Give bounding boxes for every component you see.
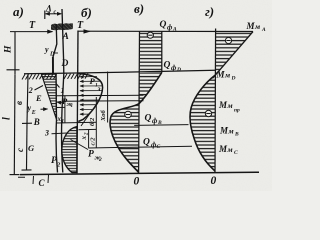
pressure bulge P1 (78, 74, 102, 122)
svg-text:D: D (49, 52, 55, 58)
Q curve (110, 73, 162, 173)
svg-text:С: С (39, 178, 46, 188)
svg-text:м: м (228, 127, 234, 136)
dimension c bottom tick (22, 169, 32, 171)
bottom line level C (20, 172, 259, 174)
dimension l line (13, 74, 16, 174)
svg-text:м: м (227, 145, 233, 154)
dimension v/c junction tick (22, 122, 32, 124)
svg-text:Δ: Δ (45, 4, 52, 14)
svg-text:0: 0 (134, 176, 140, 188)
svg-text:D: D (61, 59, 69, 69)
svg-text:1: 1 (62, 120, 65, 125)
svg-text:D: D (176, 67, 181, 73)
M axis panel g (214, 29, 217, 174)
dimension x1 line (64, 96, 66, 123)
svg-text:2: 2 (28, 86, 33, 95)
svg-text:Е: Е (31, 110, 36, 116)
ground hatch marks right (64, 73, 88, 79)
svg-text:Р: Р (88, 150, 94, 160)
level line resultant1 lower (56, 106, 65, 108)
level line resultant1 (63, 100, 144, 103)
M upper triangle hatched (216, 32, 253, 75)
level line x2 top (79, 128, 97, 130)
hatched cap strip (51, 23, 73, 30)
svg-text:В: В (33, 117, 40, 127)
frame line panel b (77, 31, 78, 174)
minus sign in M bulge (205, 110, 211, 116)
svg-text:з: з (97, 84, 101, 93)
top line level A (78, 30, 253, 32)
svg-text:Q: Q (143, 138, 150, 148)
dimension l end dash (18, 176, 25, 178)
svg-text:М: М (216, 70, 226, 80)
svg-text:у: у (27, 104, 32, 113)
svg-text:М: М (246, 21, 256, 31)
svg-text:с: с (15, 148, 25, 152)
svg-text:М: М (218, 100, 228, 110)
M curve (190, 75, 215, 171)
Q rectangle hatched (140, 32, 162, 73)
level line G (88, 146, 192, 148)
dimension v line (27, 74, 28, 123)
leader diagonal (81, 105, 96, 127)
svg-text:А: А (261, 27, 266, 33)
svg-text:С: С (234, 150, 238, 156)
svg-text:0: 0 (211, 175, 217, 187)
svg-text:в): в) (134, 1, 144, 16)
svg-text:2: 2 (85, 132, 90, 136)
ground line (24, 70, 215, 74)
svg-text:х: х (80, 136, 88, 141)
dimension c/2 + b/2 line (95, 97, 97, 148)
Q curve upper part hatched (139, 73, 162, 104)
svg-text:1: 1 (61, 86, 65, 95)
svg-text:М: М (219, 126, 229, 136)
svg-text:б): б) (81, 5, 92, 20)
svg-text:Т: Т (29, 20, 36, 31)
P1 arrows (80, 76, 97, 78)
level line b2 top (56, 94, 144, 97)
svg-text:с/2: с/2 (90, 137, 97, 146)
T arrowhead on top line (84, 29, 92, 33)
svg-text:1: 1 (71, 104, 74, 109)
svg-text:пр: пр (234, 108, 240, 114)
Q curve lower bulge hatched (110, 104, 139, 173)
svg-text:в: в (14, 101, 24, 105)
M curve lower bulge hatched (190, 75, 215, 171)
svg-text:А: А (62, 32, 69, 42)
svg-text:А: А (172, 27, 177, 33)
dimension l bottom tick (10, 174, 20, 176)
svg-text:с: с (54, 10, 57, 16)
svg-text:м: м (224, 71, 230, 80)
svg-text:м: м (254, 22, 260, 31)
minus sign in M triangle (225, 37, 231, 43)
yD leader dash (55, 52, 59, 54)
minus sign in Q bulge (125, 111, 132, 118)
svg-text:а): а) (13, 4, 24, 19)
svg-text:б/2: б/2 (89, 117, 96, 126)
svg-text:М: М (218, 144, 228, 154)
dimension Xob line (107, 72, 109, 123)
svg-text:Н: Н (4, 45, 14, 54)
svg-text:Q: Q (160, 20, 167, 30)
Q rectangle right edge (161, 31, 163, 72)
svg-text:С: С (157, 144, 161, 150)
resultant P_zh1 label (57, 101, 62, 104)
pile left edge (53, 24, 58, 173)
level line B right (134, 124, 188, 127)
svg-text:G: G (28, 143, 35, 153)
svg-text:l: l (2, 117, 13, 120)
dimension delta-c line (46, 13, 62, 15)
svg-text:3: 3 (44, 129, 49, 138)
pressure lens epure P2 (62, 127, 77, 173)
tick left of node C (32, 176, 35, 184)
svg-text:у: у (44, 45, 49, 54)
minus sign in Q rectangle (147, 32, 153, 38)
svg-text:Т: Т (77, 20, 84, 31)
svg-text:Хоб: Хоб (100, 110, 107, 122)
dimension c line (26, 123, 29, 170)
displacement wedge epure 2 (42, 74, 57, 120)
svg-text:Е: Е (35, 93, 42, 103)
dimension H line (14, 32, 16, 74)
svg-text:D: D (231, 76, 236, 82)
svg-text:2: 2 (98, 157, 102, 163)
pile left edge thick segment (52, 57, 54, 74)
M top diagonal (213, 32, 254, 79)
dimension H bottom tick (7, 69, 20, 71)
force T arrow panel a (10, 31, 53, 33)
svg-text:м: м (227, 101, 233, 110)
tick right of node C (47, 175, 50, 183)
Q axis panel v (138, 31, 141, 173)
level line B (56, 121, 96, 124)
pile right edge (62, 9, 64, 173)
ground hatch marks left (22, 74, 57, 80)
svg-text:г): г) (205, 4, 214, 19)
svg-text:Q: Q (164, 61, 171, 71)
svg-text:Q: Q (145, 114, 152, 124)
svg-text:В: В (234, 132, 239, 138)
